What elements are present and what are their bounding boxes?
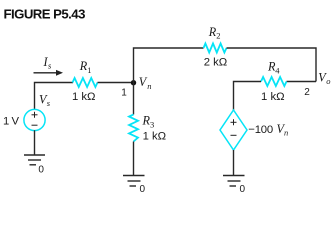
value 1 kOhm (R3) [143,131,167,143]
resistor R1 [73,78,98,87]
svg-text:0: 0 [140,184,146,195]
figure title [4,7,86,22]
label R4 [267,60,280,76]
node Vn junction dot [131,80,136,85]
svg-text:n: n [147,81,151,91]
net label 0 (below dependent source ground) [240,184,246,195]
wire: R4 right lead to Vo corner [287,81,317,83]
label Vn [139,75,152,91]
wire: dependent source bottom to ground [233,150,235,175]
net label 0 (below Vs ground) [38,165,44,176]
svg-text:2: 2 [304,87,310,98]
voltage source Vs [24,109,45,130]
svg-text:1 kΩ: 1 kΩ [143,131,167,143]
svg-text:1 kΩ: 1 kΩ [72,91,96,103]
svg-text:1 V: 1 V [3,115,20,127]
wire: Vs bottom to ground [34,130,36,154]
value label -100 Vn (dependent source) [248,122,288,138]
node number 1 [121,88,127,99]
label R3 [142,114,155,130]
ground (below R3) [123,176,145,187]
wire: R2 right across and down right side to Vo node [227,48,317,82]
svg-text:3: 3 [150,120,154,130]
wire: R3 bottom to ground [133,142,135,176]
svg-text:2: 2 [216,31,220,41]
svg-text:o: o [326,76,330,86]
ground (below Vs) [24,155,45,165]
wire: R4 left lead down to dependent source top [234,82,262,111]
wire: node Vn up and across top to R2 [134,48,204,83]
resistor R2 [204,44,227,53]
svg-text:FIGURE P5.43: FIGURE P5.43 [4,7,86,22]
ground (below dependent source) [223,176,245,187]
net label 0 (below R3 ground) [140,184,146,195]
label R2 [208,25,221,41]
value 1 V (Vs) [3,115,20,127]
node number 2 [304,87,310,98]
svg-text:0: 0 [38,165,44,176]
resistor R3 [129,115,138,142]
svg-text:1: 1 [121,88,127,99]
dependent source -100Vn (diamond) [220,110,247,150]
label Vo [318,70,330,86]
svg-text:1: 1 [87,65,91,75]
svg-text:4: 4 [275,65,280,75]
value 2 kOhm (R2) [204,57,228,69]
svg-text:2 kΩ: 2 kΩ [204,57,228,69]
svg-text:1 kΩ: 1 kΩ [261,91,285,103]
resistor R4 [261,77,287,86]
wire: node Vn down to R3 [133,83,135,115]
wire: Vs positive terminal up and across to R1 [35,83,74,110]
wire: R1 to node Vn [98,82,134,84]
value 1 kOhm (R4) [261,91,285,103]
value 1 kOhm (R1) [72,91,96,103]
label Vs [39,92,51,107]
svg-text:n: n [284,127,288,137]
svg-text:0: 0 [240,184,246,195]
current arrow Is [34,70,64,76]
label Is [43,55,53,71]
label R1 [79,59,92,75]
svg-text:−100: −100 [248,124,273,136]
